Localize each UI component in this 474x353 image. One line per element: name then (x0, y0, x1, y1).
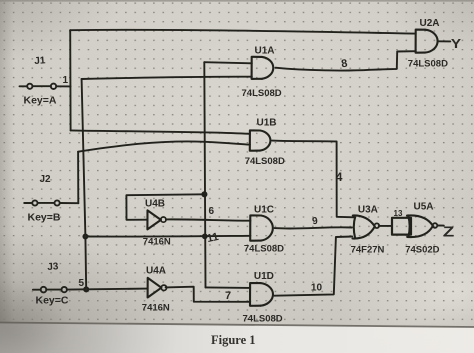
junction C / U1C wire (83, 235, 87, 239)
switch J1 (20, 85, 28, 87)
svg-text:74LS08D: 74LS08D (408, 59, 448, 70)
svg-text:J3: J3 (47, 261, 59, 273)
wire net 10: U1D out up to U3A bottom input (274, 237, 352, 296)
wire net C to U1A lower input (82, 77, 252, 79)
svg-text:U1D: U1D (254, 271, 274, 282)
svg-text:7: 7 (225, 290, 231, 302)
svg-text:6: 6 (209, 206, 215, 217)
wire U3A out to U5A tie box (379, 225, 392, 227)
svg-text:10: 10 (311, 283, 323, 294)
svg-text:Key=C: Key=C (36, 295, 69, 307)
and-gate U1D (250, 283, 261, 306)
svg-text:Figure 1: Figure 1 (211, 333, 256, 347)
svg-text:Key=B: Key=B (28, 212, 61, 224)
svg-text:7416N: 7416N (142, 303, 170, 314)
svg-text:74LS08D: 74LS08D (244, 244, 284, 255)
and-gate U1C (250, 215, 261, 240)
wire bus to U1A top input (204, 62, 252, 63)
and-gate U1A (252, 57, 262, 79)
svg-text:U3A: U3A (358, 205, 378, 216)
wire bus vertical (204, 62, 205, 287)
svg-text:Z: Z (443, 223, 454, 240)
svg-text:Y: Y (451, 37, 462, 52)
svg-text:13: 13 (394, 209, 403, 218)
junction bus / U4B input (202, 192, 206, 196)
U5A input tie box (392, 218, 411, 235)
svg-text:U4A: U4A (146, 266, 166, 277)
wire net 4: U1B out down to U3A top input (272, 141, 354, 218)
wire net 5 to U4A input (67, 289, 148, 290)
svg-text:74LS08D: 74LS08D (245, 156, 285, 167)
wire U2A output to Y (439, 40, 451, 42)
wire net B to U1B lower input (78, 141, 250, 151)
inverter U4B (147, 210, 161, 229)
switch J3 (33, 289, 41, 291)
nor-gate U5A (407, 215, 433, 237)
wire net B riser (77, 152, 79, 204)
svg-text:U1A: U1A (255, 46, 275, 57)
wire net 7: bus to U1D top input (206, 286, 251, 289)
switch J2 (24, 202, 32, 204)
wire net A top: J1 node up to U2A top input (70, 30, 416, 34)
junction blob at bus crossing (203, 234, 207, 238)
nor-gate U3A (353, 215, 375, 238)
svg-text:U1C: U1C (254, 205, 274, 216)
svg-text:5: 5 (79, 278, 85, 289)
svg-text:74S02D: 74S02D (405, 245, 439, 256)
wire net 6: U4B output to U1C top input (166, 219, 251, 220)
svg-text:11: 11 (206, 231, 220, 245)
svg-text:U5A: U5A (414, 202, 434, 213)
svg-text:U2A: U2A (420, 18, 440, 29)
svg-text:U4B: U4B (145, 199, 165, 210)
wire U5A output to Z (438, 225, 444, 227)
wire net 9: U1C out to U3A middle input (275, 227, 353, 228)
svg-text:74LS08D: 74LS08D (243, 314, 283, 325)
wire net A lower branch to U1B top input (71, 130, 250, 133)
svg-text:U1B: U1B (257, 118, 277, 129)
wire U4A out jog to U1D lower input (166, 287, 251, 302)
svg-text:74F27N: 74F27N (351, 245, 385, 256)
and-gate U1B (250, 130, 260, 150)
wire U4B input loop (126, 194, 204, 220)
wire J1 vertical (69, 30, 71, 130)
svg-text:74LS08D: 74LS08D (242, 88, 282, 99)
wire net 11: C to U1C lower input (85, 235, 250, 238)
svg-text:J2: J2 (40, 174, 52, 185)
svg-text:4: 4 (336, 170, 343, 184)
svg-text:1: 1 (63, 75, 69, 86)
and-gate U2A (416, 30, 425, 53)
svg-text:7416N: 7416N (143, 237, 171, 248)
inverter U4A (148, 278, 162, 298)
wire net C riser (J3 up to U1A lower input) (82, 79, 87, 290)
junction J3 / C riser (84, 287, 88, 291)
wire net 8: U1A out to U2A lower input (276, 51, 416, 70)
svg-text:Key=A: Key=A (24, 95, 57, 107)
svg-text:J1: J1 (34, 55, 46, 67)
